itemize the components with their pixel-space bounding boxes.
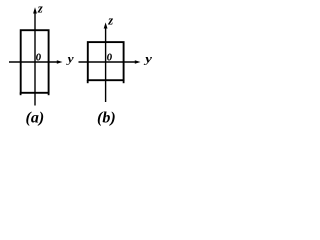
svg-text:z: z [37, 2, 43, 16]
svg-text:(b): (b) [97, 110, 116, 127]
svg-text:o: o [36, 47, 42, 64]
svg-text:(a): (a) [26, 110, 45, 127]
svg-text:y: y [143, 52, 153, 65]
svg-text:z: z [107, 14, 113, 28]
svg-text:o: o [107, 47, 113, 64]
svg-text:y: y [65, 52, 73, 65]
